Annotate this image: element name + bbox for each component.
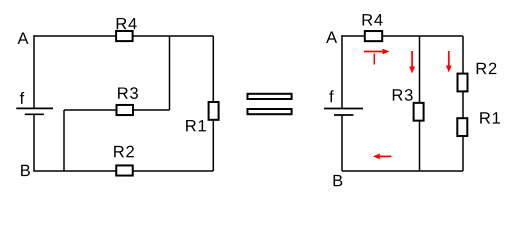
resistor R1 (left circuit, right vertical): [209, 102, 219, 120]
wire: right circuit left vertical from A to battery: [341, 35, 343, 108]
resistor R4 (right circuit, top rail): [365, 31, 382, 41]
current arrow left (bottom rail return): [373, 154, 392, 160]
label R3 (left): [118, 87, 138, 99]
battery f (right circuit) long plate: [324, 108, 363, 110]
wire: right circuit left vertical from battery to B: [341, 115, 343, 171]
label R1 (right): [480, 112, 500, 123]
label R2 (left): [114, 146, 134, 158]
battery f (right circuit) short plate: [334, 114, 353, 116]
label R1 (left): [186, 120, 206, 131]
resistor R4 (left circuit, top rail): [116, 31, 133, 41]
node A (left circuit): [18, 33, 29, 44]
battery f (left circuit) short plate: [25, 113, 44, 115]
wire: vertical from R3 left end down to bottom rail: [63, 110, 65, 171]
label R4 (right): [363, 14, 383, 25]
wire: left circuit right vertical (through R1): [212, 36, 214, 171]
current arrow down (right branch): [446, 51, 452, 73]
wire: mid vertical from top rail down to R3 level: [169, 36, 171, 110]
label f (left battery): [20, 92, 24, 104]
wire: left vertical from A down to battery: [33, 35, 35, 108]
wire: R3 horizontal run: [64, 109, 170, 111]
current arrow I (right, under R4, pointing right): [364, 49, 390, 55]
current arrow down (R3 branch): [409, 51, 415, 74]
wire: left vertical from battery down to B: [33, 114, 35, 171]
resistor R2 (left circuit, bottom rail): [116, 165, 133, 175]
label R3 (right): [393, 89, 413, 101]
label R4 (left): [117, 18, 137, 29]
label f (right battery): [329, 90, 333, 102]
wire: R3 branch vertical: [419, 36, 421, 171]
resistor R2 (right circuit, right branch top): [458, 74, 468, 92]
node B (left circuit): [21, 165, 30, 176]
resistor R3 (left circuit, middle run): [117, 105, 134, 115]
wire: right branch vertical (R2, R1): [462, 36, 464, 171]
wire: right circuit top rail: [341, 35, 463, 37]
node B (right circuit): [334, 175, 343, 186]
resistor R3 (right circuit, middle branch): [414, 103, 424, 121]
equivalence bar top: [248, 94, 292, 99]
wire: right circuit bottom rail: [342, 170, 463, 172]
wire: left circuit bottom rail B: [33, 170, 213, 172]
equivalence bar bottom: [248, 109, 292, 114]
node A (right circuit): [326, 32, 337, 43]
wire: left circuit top rail A to right corner: [33, 35, 213, 37]
resistor R1 (right circuit, right branch bottom): [457, 118, 467, 136]
label R2 (right): [477, 63, 497, 75]
battery f (left circuit) long plate: [16, 107, 53, 109]
label I (current, red): [373, 54, 375, 65]
